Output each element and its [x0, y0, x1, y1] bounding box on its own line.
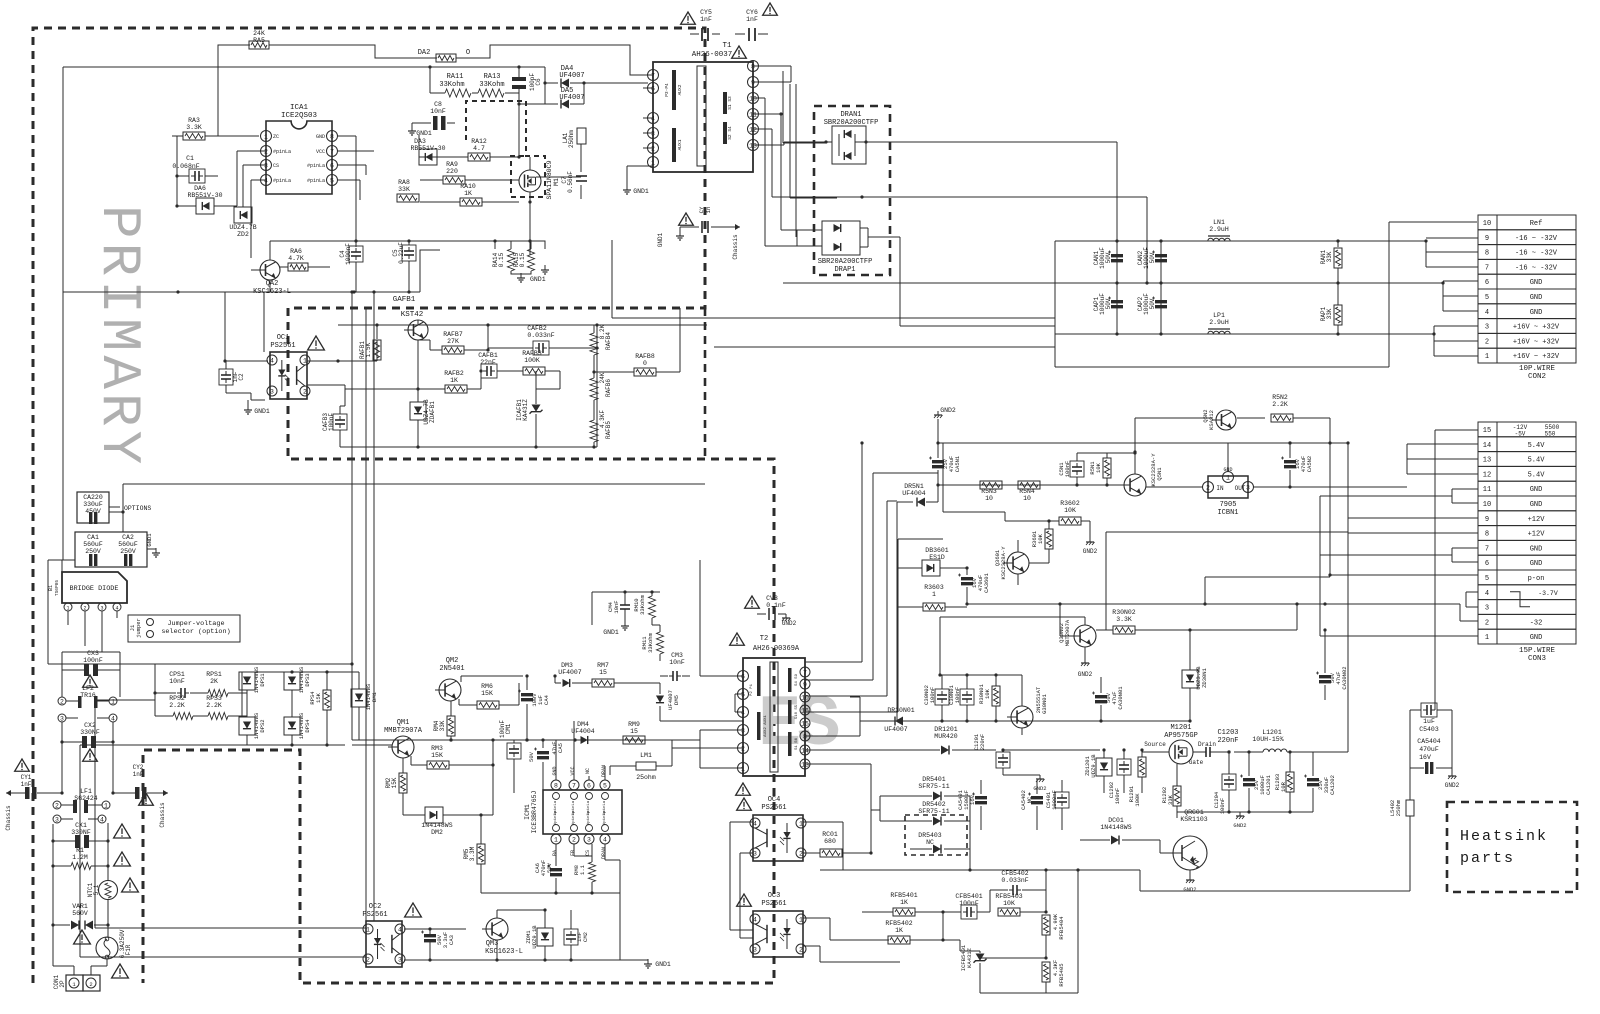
svg-text:CA3: CA3: [448, 935, 455, 945]
svg-text:GND2: GND2: [1033, 785, 1046, 792]
svg-text:100nF: 100nF: [959, 900, 979, 907]
svg-text:33Kohm: 33Kohm: [439, 81, 464, 89]
svg-text:1: 1: [366, 926, 370, 933]
svg-text:DA6: DA6: [194, 185, 206, 192]
capacitor CA220 330uF 450V box: [77, 492, 109, 523]
svg-text:1: 1: [1485, 353, 1489, 361]
svg-text:-16 ~ -32V: -16 ~ -32V: [1515, 235, 1558, 243]
svg-text:RAFB2: RAFB2: [444, 370, 464, 377]
svg-text:100K: 100K: [524, 357, 540, 364]
svg-text:UDZ9.1B: UDZ9.1B: [1090, 754, 1097, 778]
svg-text:DM2: DM2: [431, 829, 443, 836]
svg-text:10UH-15%: 10UH-15%: [1252, 736, 1283, 743]
wire OC2/QM3 rails: [404, 959, 620, 961]
wire mid left rails: [154, 664, 156, 693]
svg-text:CON3: CON3: [1528, 655, 1547, 663]
svg-text:6: 6: [330, 162, 334, 169]
zener ZD2 UDZ4.7B: [234, 207, 252, 223]
svg-text:4: 4: [1485, 590, 1489, 598]
svg-text:7: 7: [651, 72, 655, 79]
svg-text:OC1: OC1: [277, 334, 290, 342]
warning triangle T1: [732, 46, 747, 58]
resistor R1203 10K: [1286, 772, 1294, 792]
warning triangle T2 bottom: [736, 783, 751, 795]
svg-text:UDZ9.1B: UDZ9.1B: [531, 925, 538, 949]
svg-text:OPTIONS: OPTIONS: [124, 505, 151, 512]
wire OC4 OC3 connections: [803, 821, 843, 823]
svg-text:RA3: RA3: [188, 117, 200, 124]
capacitor C2 1nF: [219, 369, 233, 385]
capacitor CA1201 1000uF 25V: [1243, 778, 1255, 781]
svg-text:8: 8: [751, 63, 755, 70]
svg-text:7: 7: [1485, 264, 1489, 272]
capacitor CAP2 1000uF 50V: [1160, 283, 1162, 334]
svg-text:3: 3: [753, 850, 757, 857]
resistor LA1 250hm: [577, 128, 586, 144]
capacitor CAFB2 0.033nF: [533, 341, 549, 355]
capacitor C5N1 100nF: [1070, 461, 1084, 477]
capacitor C6 100pF: [518, 67, 520, 77]
svg-text:10K: 10K: [1037, 533, 1044, 544]
warning triangle CY1: [15, 759, 30, 771]
svg-text:Ref: Ref: [1530, 220, 1543, 228]
svg-text:250hm: 250hm: [1395, 799, 1402, 816]
capacitor CY5 1nF: [690, 33, 699, 35]
svg-text:3: 3: [651, 130, 655, 137]
wire ICA1 right pin connections: [338, 135, 356, 137]
resistor RM11 33Kohm: [657, 632, 664, 654]
svg-text:CFB5401: CFB5401: [955, 893, 982, 900]
svg-text:ICBN1: ICBN1: [1217, 509, 1238, 517]
svg-text:RM7: RM7: [597, 662, 609, 669]
diode DPS2 1N4148WS: [239, 717, 255, 735]
svg-text:L1201: L1201: [1262, 729, 1282, 736]
svg-text:CA5N1: CA5N1: [954, 455, 961, 472]
svg-text:250V: 250V: [120, 548, 136, 555]
svg-text:C8: C8: [434, 101, 442, 108]
resistor RM2 15K: [399, 773, 407, 793]
svg-text:1: 1: [66, 606, 69, 612]
svg-text:GND: GND: [1530, 294, 1543, 302]
svg-text:DR5401: DR5401: [922, 776, 946, 783]
svg-text:14: 14: [1483, 442, 1491, 450]
optocoupler OC2 PS2561: [366, 921, 402, 967]
svg-text:DR30N01: DR30N01: [887, 707, 914, 714]
svg-text:0.56nF: 0.56nF: [567, 171, 574, 193]
svg-text:RM9: RM9: [628, 721, 640, 728]
wire OC4 right rail down: [870, 810, 872, 853]
svg-text:10: 10: [1023, 495, 1031, 502]
wire CON3 GND rows 7 6: [1452, 547, 1478, 549]
svg-text:9: 9: [803, 681, 807, 688]
wire 5V rail: [938, 484, 1120, 486]
svg-text:Gate: Gate: [1189, 759, 1204, 766]
svg-text:220nF: 220nF: [1217, 737, 1238, 745]
capacitor CA3 3.3uF 50V: [424, 934, 436, 937]
svg-text:3: 3: [100, 606, 103, 612]
svg-text:2: 2: [741, 745, 745, 752]
wire VCC cap rail: [270, 240, 530, 242]
svg-text:5: 5: [330, 177, 334, 184]
svg-text:15: 15: [630, 728, 638, 735]
svg-text:6: 6: [1485, 279, 1489, 287]
svg-text:DM5: DM5: [673, 695, 680, 705]
svg-text:DRAN1: DRAN1: [840, 111, 861, 119]
svg-text:R5N4: R5N4: [1019, 488, 1035, 495]
svg-text:10K: 10K: [984, 688, 991, 699]
transistor Q30N02 MBT2907A: [1074, 625, 1096, 647]
optocoupler OC1 PS2561: [270, 352, 307, 399]
svg-text:UF4007: UF4007: [559, 94, 584, 102]
svg-text:3.3K: 3.3K: [186, 124, 202, 131]
svg-text:ZD30N1: ZD30N1: [1201, 667, 1208, 688]
svg-text:33K: 33K: [1167, 794, 1174, 805]
svg-text:330NF: 330NF: [80, 729, 100, 736]
svg-text:10: 10: [985, 495, 993, 502]
diode DA4 UF4007: [561, 79, 569, 88]
svg-text:220: 220: [446, 168, 458, 175]
svg-text:p-on: p-on: [1528, 575, 1545, 583]
svg-text:S10 S5: S10 S5: [795, 704, 799, 719]
svg-text:GND: GND: [1530, 560, 1543, 568]
svg-text:1: 1: [932, 591, 936, 598]
svg-text:GND: GND: [1530, 486, 1543, 494]
svg-text:LM1: LM1: [640, 752, 652, 759]
svg-text:3: 3: [264, 162, 268, 169]
svg-text:C1: C1: [186, 155, 194, 162]
svg-text:CY1: CY1: [21, 774, 32, 781]
svg-text:S4 S9: S4 S9: [795, 673, 799, 686]
svg-text:15K: 15K: [431, 752, 443, 759]
svg-text:VCC: VCC: [316, 149, 325, 155]
svg-text:9: 9: [1485, 516, 1489, 524]
svg-text:DR5N1: DR5N1: [904, 483, 924, 490]
wire feedback bottom rail: [340, 446, 597, 448]
svg-text:2K: 2K: [210, 678, 218, 685]
svg-text:2: 2: [83, 606, 86, 612]
svg-text:#pinLa: #pinLa: [586, 810, 591, 825]
capacitor C5401 1000nF: [1055, 792, 1069, 808]
resistor RAN1 33K: [1337, 241, 1339, 247]
wire -12V bus: [938, 442, 1348, 444]
svg-text:2: 2: [60, 698, 64, 705]
svg-text:RAFB7: RAFB7: [443, 331, 463, 338]
svg-text:CY6: CY6: [746, 9, 758, 16]
svg-text:RA10: RA10: [460, 183, 476, 190]
svg-text:Chassis: Chassis: [159, 802, 166, 828]
transistor Q3601 KSC2328A-Y: [1007, 552, 1029, 574]
svg-text:1000nF: 1000nF: [345, 243, 352, 265]
svg-text:15K: 15K: [481, 690, 493, 697]
svg-text:2: 2: [799, 946, 803, 953]
svg-text:#pinLa: #pinLa: [307, 178, 325, 184]
wire +12V rail output: [1313, 751, 1348, 753]
svg-text:SBR20A200CTFP: SBR20A200CTFP: [818, 258, 873, 266]
transistor Q5N1 KSC2328A-Y: [1124, 474, 1146, 496]
warning triangle OC4: [737, 798, 752, 810]
svg-text:CAFB2: CAFB2: [527, 325, 547, 332]
svg-text:DC01: DC01: [1108, 817, 1124, 824]
svg-text:+12V: +12V: [1528, 531, 1546, 539]
wire CM4 net: [592, 591, 660, 593]
svg-text:2: 2: [89, 981, 92, 988]
svg-text:1nF: 1nF: [21, 781, 32, 788]
svg-text:1K: 1K: [895, 927, 903, 934]
svg-text:R30N02: R30N02: [1112, 609, 1136, 616]
svg-text:CS: CS: [585, 850, 591, 856]
wire CON3 GND row 1: [1320, 635, 1478, 637]
capacitor CA3601 470uF 16V: [961, 577, 973, 580]
svg-text:GND2: GND2: [1445, 782, 1460, 789]
svg-text:1.1: 1.1: [579, 864, 586, 875]
svg-text:11: 11: [749, 111, 757, 118]
svg-text:2: 2: [572, 836, 576, 843]
diode DA5 UF4007: [561, 100, 569, 109]
wire OC2 left connections: [95, 927, 366, 929]
svg-text:CX3: CX3: [87, 650, 99, 657]
capacitors CA1 CA2 560uF 250V box: [75, 532, 147, 567]
svg-text:14: 14: [801, 747, 809, 754]
wire -12V to CON3: [1435, 429, 1478, 431]
diode DM5 UF4007: [656, 696, 664, 703]
svg-text:#pinLa: #pinLa: [553, 810, 558, 825]
svg-text:RPS3: RPS3: [206, 695, 222, 702]
MOSFET M1 SPA11N80C9: [519, 170, 541, 192]
resistor R5N3 10: [980, 481, 1002, 489]
svg-text:RFB5401: RFB5401: [890, 892, 917, 899]
diode DM1 1N4148WS: [351, 689, 367, 707]
svg-text:M1201: M1201: [1170, 724, 1191, 732]
svg-text:1N4148WS: 1N4148WS: [1100, 824, 1131, 831]
svg-text:13: 13: [1483, 457, 1491, 465]
wire secondary buses: [1055, 240, 1426, 242]
svg-text:+16V ~ +32V: +16V ~ +32V: [1513, 353, 1560, 361]
warning triangle CX2: [83, 749, 98, 761]
svg-text:-32: -32: [1530, 619, 1543, 627]
warning triangle NTC1: [122, 878, 139, 892]
svg-text:DM3: DM3: [561, 662, 573, 669]
svg-text:AH26-00369A: AH26-00369A: [753, 645, 800, 653]
svg-text:CV3: CV3: [766, 595, 778, 602]
svg-text:SFR75-11: SFR75-11: [918, 808, 949, 815]
transistor Q5N2 KSA812: [1216, 410, 1236, 430]
svg-text:1: 1: [799, 916, 803, 923]
svg-text:250V: 250V: [85, 548, 101, 555]
svg-text:#pinLa: #pinLa: [571, 810, 576, 825]
svg-text:#pinLa: #pinLa: [307, 163, 325, 169]
resistor RAFB7 27K: [442, 346, 464, 354]
warning triangle OC3: [737, 894, 752, 906]
wire 5.4V to CON3: [1406, 444, 1408, 474]
capacitor CA6 470nF 50V: [550, 868, 562, 871]
resistor RA8 33K: [397, 194, 419, 202]
svg-text:100nF: 100nF: [954, 687, 961, 704]
svg-text:10: 10: [1483, 220, 1491, 228]
diode DM2 1N4148WS: [425, 807, 443, 823]
svg-text:KST42: KST42: [401, 311, 424, 319]
capacitor CA5N1 470uF 25V: [932, 460, 944, 463]
connector CON1 2P: [66, 975, 83, 991]
svg-text:ICA1: ICA1: [290, 104, 309, 112]
resistor RA12 4.7: [468, 153, 490, 161]
wire DRAN1 outputs: [890, 141, 1117, 143]
wire QA2 row: [63, 291, 420, 293]
resistor RAFB4 8.2K: [590, 333, 598, 355]
svg-text:6: 6: [1485, 560, 1489, 568]
svg-text:CFB5402: CFB5402: [1001, 870, 1028, 877]
svg-text:RFB5404: RFB5404: [1058, 916, 1065, 940]
svg-text:4: 4: [1485, 309, 1489, 317]
svg-text:+16V ~ +32V: +16V ~ +32V: [1513, 338, 1560, 346]
svg-text:1nF: 1nF: [700, 16, 712, 23]
svg-text:1K: 1K: [450, 377, 458, 384]
svg-text:1: 1: [799, 820, 803, 827]
wire RA11 row: [429, 67, 431, 93]
svg-text:GND: GND: [316, 134, 325, 140]
svg-text:RA6: RA6: [290, 248, 302, 255]
svg-text:11: 11: [1483, 486, 1491, 494]
svg-text:GND1: GND1: [655, 961, 671, 968]
svg-text:1: 1: [651, 159, 655, 166]
svg-text:DA3: DA3: [414, 138, 426, 145]
svg-text:2.9uH: 2.9uH: [1209, 226, 1229, 233]
svg-text:15: 15: [1483, 427, 1491, 435]
diode DPS3 1N4148WS: [284, 672, 300, 690]
svg-text:10: 10: [749, 95, 757, 102]
svg-text:16V: 16V: [1419, 754, 1431, 761]
svg-text:4: 4: [753, 916, 757, 923]
resistor RAFB6 24K: [590, 378, 598, 400]
svg-text:#pinLa: #pinLa: [602, 810, 607, 825]
svg-text:F1R: F1R: [125, 944, 132, 955]
resistor RA6 4.7K: [288, 263, 308, 271]
svg-text:CY2: CY2: [133, 764, 144, 771]
svg-text:7: 7: [330, 148, 334, 155]
wire long verticals into ICM1 area: [365, 308, 367, 953]
svg-text:Source: Source: [1144, 741, 1166, 748]
warning triangle CY6: [763, 3, 778, 15]
svg-text:TS6P05: TS6P05: [54, 580, 60, 597]
svg-text:1uF: 1uF: [1423, 718, 1435, 725]
svg-text:UF4004: UF4004: [571, 728, 595, 735]
fuse F1R 6.3A250V: [96, 937, 118, 959]
svg-text:C5403: C5403: [1419, 726, 1439, 733]
svg-text:1: 1: [554, 836, 558, 843]
capacitor CAFB3 100nF: [333, 414, 347, 430]
svg-text:7905: 7905: [1220, 501, 1237, 509]
svg-text:100nF: 100nF: [929, 687, 936, 704]
svg-text:GND2: GND2: [782, 620, 797, 627]
T1 primary winding bars: [672, 70, 676, 110]
resistor RPS4 15K: [323, 690, 331, 710]
svg-text:DA2: DA2: [418, 49, 431, 57]
svg-text:4: 4: [111, 715, 115, 722]
svg-text:12: 12: [1483, 471, 1491, 479]
svg-text:RA12: RA12: [471, 138, 487, 145]
OPTIONS label: [109, 506, 120, 508]
rectifier DRAP1 SBR20A200CTFP: [822, 221, 860, 255]
svg-text:2.2K: 2.2K: [1272, 401, 1288, 408]
svg-text:CA5N2: CA5N2: [1306, 456, 1313, 473]
capacitor CA30N02 47uF 50V: [1319, 675, 1331, 678]
svg-text:27K: 27K: [447, 338, 459, 345]
svg-text:O: O: [466, 49, 470, 57]
svg-text:1000nF: 1000nF: [1051, 790, 1058, 810]
svg-text:4: 4: [398, 926, 402, 933]
svg-text:OC3: OC3: [768, 892, 781, 900]
svg-text:OUT: OUT: [1235, 485, 1246, 492]
svg-text:4: 4: [100, 816, 104, 823]
svg-text:ICE2QS03: ICE2QS03: [281, 112, 318, 120]
svg-text:OC4: OC4: [768, 796, 781, 804]
diode DPS4 1N4148WS: [284, 717, 300, 735]
svg-text:CA5404: CA5404: [1417, 738, 1441, 745]
svg-text:VCC: VCC: [570, 766, 576, 775]
svg-text:3.3K: 3.3K: [1116, 616, 1132, 623]
svg-text:CA220: CA220: [83, 494, 103, 501]
svg-text:CA30N02: CA30N02: [1341, 666, 1348, 689]
svg-text:12: 12: [749, 126, 757, 133]
resistor RA3 3.3K: [183, 132, 205, 140]
svg-text:jumper: jumper: [135, 618, 142, 638]
resistor RFB5405 4.3KF: [1042, 962, 1050, 982]
resistor RAFB1 1.5K: [373, 340, 381, 360]
svg-text:CS: CS: [273, 163, 279, 169]
svg-text:RA13: RA13: [484, 73, 501, 81]
resistor R1202 33K: [1173, 786, 1181, 806]
svg-text:RAFB3: RAFB3: [522, 350, 542, 357]
svg-text:parts: parts: [1460, 850, 1515, 867]
svg-text:CY: CY: [698, 206, 705, 213]
svg-text:CA1: CA1: [87, 534, 99, 541]
svg-text:3: 3: [55, 816, 59, 823]
capacitor C4 1000nF: [349, 246, 363, 262]
capacitor CAN2 1000uF 50V: [1160, 241, 1162, 283]
svg-text:0.15: 0.15: [519, 252, 526, 267]
diode DA6 RB551V-30: [196, 198, 214, 214]
svg-text:B1: B1: [48, 585, 54, 591]
svg-text:GND2: GND2: [940, 407, 956, 414]
svg-text:AH26-0037: AH26-0037: [692, 51, 733, 59]
transistor G30N01 2N5551AT: [1011, 706, 1033, 728]
svg-text:CA3601: CA3601: [983, 572, 990, 593]
warning triangle CX1: [114, 824, 131, 838]
svg-text:SFR75-11: SFR75-11: [918, 783, 949, 790]
svg-text:470uF: 470uF: [1419, 746, 1439, 753]
svg-text:3.3M: 3.3M: [469, 846, 476, 861]
snubber dashed box RA12: [466, 101, 545, 197]
svg-text:1K: 1K: [900, 899, 908, 906]
svg-text:AP9575GP: AP9575GP: [1164, 732, 1198, 740]
svg-text:LF1: LF1: [80, 788, 92, 795]
svg-text:Chassis: Chassis: [732, 234, 739, 260]
svg-text:KA431Z: KA431Z: [522, 399, 529, 421]
svg-text:DR5403: DR5403: [918, 832, 942, 839]
resistor R5N4 10: [1018, 481, 1040, 489]
svg-text:1K: 1K: [464, 190, 472, 197]
svg-text:560uF: 560uF: [118, 541, 138, 548]
svg-text:4.7: 4.7: [473, 145, 485, 152]
svg-text:1: 1: [303, 357, 307, 364]
svg-text:GND: GND: [1530, 501, 1543, 509]
resistor RA9 220: [443, 176, 465, 184]
svg-text:0.068nF: 0.068nF: [172, 163, 199, 170]
svg-text:1: 1: [1226, 474, 1230, 481]
svg-text:GND1: GND1: [657, 232, 664, 247]
svg-text:GND: GND: [1530, 634, 1543, 642]
svg-text:1: 1: [264, 133, 268, 140]
svg-text:GND1: GND1: [146, 533, 153, 547]
